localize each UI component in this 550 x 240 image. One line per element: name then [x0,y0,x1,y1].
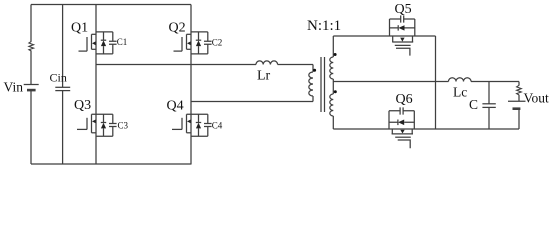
wire right bridge leg [190,5,192,165]
svg-text:Q1: Q1 [71,21,88,36]
capacitor C output [482,104,495,108]
wire Vin branch upper [30,5,32,42]
resistor input series zigzag [29,41,34,51]
transistor Q2 [174,34,192,51]
resistor output series zigzag [517,85,522,95]
inductor transformer primary winding [309,72,313,96]
capacitor C1 [109,32,117,54]
wire primary top lead [312,65,314,73]
diode Q3 body diode [101,114,106,136]
wire left bridge leg [95,5,97,165]
wire primary bottom lead [312,96,314,102]
wire secondary bottom rail [333,128,519,130]
wire bottom rail [31,163,192,165]
svg-text:Q6: Q6 [396,92,413,107]
wire primary return [191,101,313,103]
wire Lr right segment [278,64,313,66]
wire Vout branch top [518,82,520,86]
transistor Q6 [392,129,413,148]
wire Vout zigzag to battery [518,95,520,101]
capacitor C3 [109,114,117,136]
wire C branch lower [488,108,490,130]
wire top rail [31,4,191,6]
diode Q2 body diode [196,32,201,54]
wire C branch upper [488,82,490,104]
transistor Q4 [172,114,191,133]
wire Q4 parallel loop [187,114,208,136]
svg-text:Q2: Q2 [169,21,186,36]
svg-text:C: C [469,97,478,112]
transformer core [321,57,325,112]
wire center tap rail [333,81,448,83]
wire secondary top lead [332,36,334,57]
capacitor C2 [204,32,212,54]
battery Vin [24,85,39,91]
wire Q1 parallel loop [96,32,113,54]
wire Cin branch upper [62,5,64,88]
diode Q4 body diode [196,114,201,136]
capacitor C4 [204,114,212,136]
inductor Lc [449,78,472,82]
svg-text:Cin: Cin [50,71,67,85]
diode Q1 body diode [101,32,106,54]
svg-text:C3: C3 [118,120,129,130]
transistor Q1 [79,34,97,51]
wire Q3 parallel loop [92,114,113,136]
wire Lr left segment [96,64,256,66]
capacitor Cin [55,87,70,90]
node secondary bottom dot [334,90,337,93]
diode Q5 body diode [390,25,415,30]
transistor Q5 [392,36,413,56]
svg-text:C4: C4 [212,120,223,130]
battery Vout [508,101,526,108]
svg-text:Q3: Q3 [74,98,91,113]
svg-text:Vin: Vin [4,80,24,95]
wire center tap lead [332,79,334,94]
wire secondary bottom lead [332,116,334,129]
svg-text:Q5: Q5 [395,2,412,17]
node primary dot [313,69,316,72]
node secondary top dot [334,53,337,56]
svg-text:C2: C2 [212,37,223,47]
diode Q6 body diode [389,120,414,126]
svg-text:Lr: Lr [257,69,271,84]
inductor transformer secondary top winding [330,57,334,79]
wire Vin branch lower [30,91,32,165]
wire Q6 parallel loop [389,111,414,129]
wire Cin branch lower [62,91,64,164]
wire secondary top rail [333,35,435,37]
wire Q2 parallel loop [191,32,208,54]
inductor Lr [256,61,278,65]
inductor transformer secondary bottom winding [330,94,334,116]
svg-text:Lc: Lc [453,84,467,99]
transistor Q3 [77,114,96,133]
wire output rail after Lc [471,81,519,83]
capacitor Q5 snubber [390,15,415,22]
svg-text:Q4: Q4 [167,99,184,114]
svg-text:Vout: Vout [524,91,550,106]
svg-text:C1: C1 [117,37,128,47]
capacitor Q6 snubber [389,107,414,114]
wire Q5 parallel loop [390,19,415,36]
wire Vout branch bottom [518,109,520,129]
wire Vin branch middle [30,51,32,85]
svg-text:N:1:1: N:1:1 [307,18,341,34]
wire rectifier common vertical [435,36,437,129]
